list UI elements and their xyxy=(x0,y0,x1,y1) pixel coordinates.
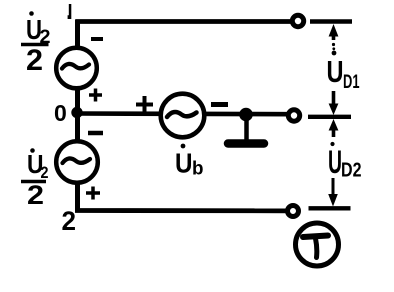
label U2/2 lower xyxy=(21,148,49,210)
wire: middle horizontal from node 0 through Ub to middle terminal xyxy=(77,111,290,116)
svg-text:D1: D1 xyxy=(343,72,360,93)
wire: bottom horizontal from node 2 to bottom terminal xyxy=(75,208,288,213)
arrow down at bottom tick (UD2 lower end) xyxy=(328,178,338,207)
arrow up below middle tick (UD2 upper end) xyxy=(329,119,339,137)
wire: top horizontal from node 1 to top terminal xyxy=(76,19,293,24)
svg-text:U: U xyxy=(175,148,193,179)
polarity plus of V2 xyxy=(86,187,100,200)
svg-text:D2: D2 xyxy=(341,160,362,182)
label U2/2 upper xyxy=(21,11,51,77)
terminal middle xyxy=(288,110,299,121)
arrow up at top tick (UD1 upper end) xyxy=(329,24,339,50)
node 1 label xyxy=(68,4,72,19)
label UD1 xyxy=(327,51,360,93)
svg-text:U: U xyxy=(328,144,342,180)
transformer symbol T xyxy=(296,223,339,266)
svg-text:2: 2 xyxy=(62,206,77,236)
source Ub xyxy=(161,94,205,138)
source V2 (lower U2/2) xyxy=(56,141,98,183)
polarity plus of Ub xyxy=(136,96,153,113)
polarity plus of V1 xyxy=(89,89,102,102)
terminal top xyxy=(292,15,303,26)
label UD2 xyxy=(328,142,362,182)
junction dot at ground node xyxy=(239,108,253,122)
polarity minus of V2 xyxy=(88,131,103,136)
polarity minus of V1 xyxy=(91,37,103,41)
wire: left vertical bus from node 1 corner through sources to node 2 corner xyxy=(75,20,80,211)
ground xyxy=(228,114,264,144)
tick middle xyxy=(308,115,351,119)
tick top xyxy=(310,19,352,23)
label Ub xyxy=(175,144,204,180)
arrow down at middle tick (UD1 lower end) xyxy=(329,91,339,115)
svg-text:2: 2 xyxy=(26,44,43,77)
polarity minus of Ub xyxy=(211,102,228,107)
svg-text:b: b xyxy=(192,159,204,180)
node 0 junction dot xyxy=(71,107,82,118)
source V1 (upper U2/2) xyxy=(56,48,97,89)
svg-text:0: 0 xyxy=(54,100,67,126)
tick bottom xyxy=(309,206,351,210)
svg-text:2: 2 xyxy=(27,180,44,210)
svg-text:U: U xyxy=(327,54,344,89)
terminal bottom xyxy=(288,206,299,217)
